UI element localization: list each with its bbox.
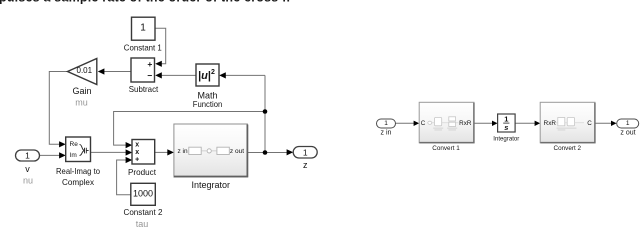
svg-text:Constant 1: Constant 1 — [124, 42, 162, 52]
svg-text:x: x — [135, 149, 139, 156]
svg-text:Convert 2: Convert 2 — [554, 145, 582, 152]
svg-text:+: + — [135, 157, 139, 164]
svg-text:C: C — [587, 120, 592, 127]
svg-text:+: + — [147, 59, 152, 69]
svg-text:Re: Re — [70, 141, 79, 148]
svg-text:Real-Imag to: Real-Imag to — [56, 166, 100, 176]
svg-text:1: 1 — [303, 147, 308, 157]
svg-text:mu: mu — [75, 98, 88, 108]
svg-text:RxR: RxR — [459, 120, 472, 127]
svg-text:Subtract: Subtract — [129, 84, 159, 94]
svg-text:z in: z in — [381, 129, 392, 136]
svg-text:C: C — [421, 120, 426, 127]
svg-text:1: 1 — [384, 120, 388, 127]
svg-text:pulses a sample rate of the or: pulses a sample rate of the order of the… — [0, 0, 292, 4]
svg-text:1: 1 — [25, 151, 30, 161]
svg-text:0.01: 0.01 — [77, 66, 93, 75]
svg-text:Product: Product — [128, 167, 157, 177]
svg-text:z out: z out — [230, 148, 244, 155]
svg-text:Im: Im — [70, 152, 77, 159]
svg-text:v: v — [25, 164, 30, 174]
svg-text:1000: 1000 — [133, 188, 153, 198]
svg-text:x: x — [135, 142, 139, 149]
svg-text:Gain: Gain — [72, 86, 91, 96]
svg-text:Function: Function — [193, 99, 223, 109]
svg-text:z: z — [303, 160, 308, 170]
svg-text:z in: z in — [178, 148, 189, 155]
svg-text:Integrator: Integrator — [192, 180, 231, 190]
svg-text:Integrator: Integrator — [493, 135, 520, 142]
svg-text:Constant 2: Constant 2 — [124, 207, 163, 217]
svg-text:z out: z out — [620, 130, 635, 137]
svg-text:s: s — [504, 123, 508, 132]
svg-text:1: 1 — [626, 120, 630, 127]
svg-text:Complex: Complex — [62, 177, 95, 187]
svg-text:RxR: RxR — [544, 120, 557, 127]
svg-text:tau: tau — [136, 219, 149, 229]
svg-text:Convert 1: Convert 1 — [432, 145, 460, 152]
svg-text:nu: nu — [23, 176, 33, 186]
svg-text:1: 1 — [140, 23, 146, 34]
svg-text:−: − — [147, 70, 152, 80]
